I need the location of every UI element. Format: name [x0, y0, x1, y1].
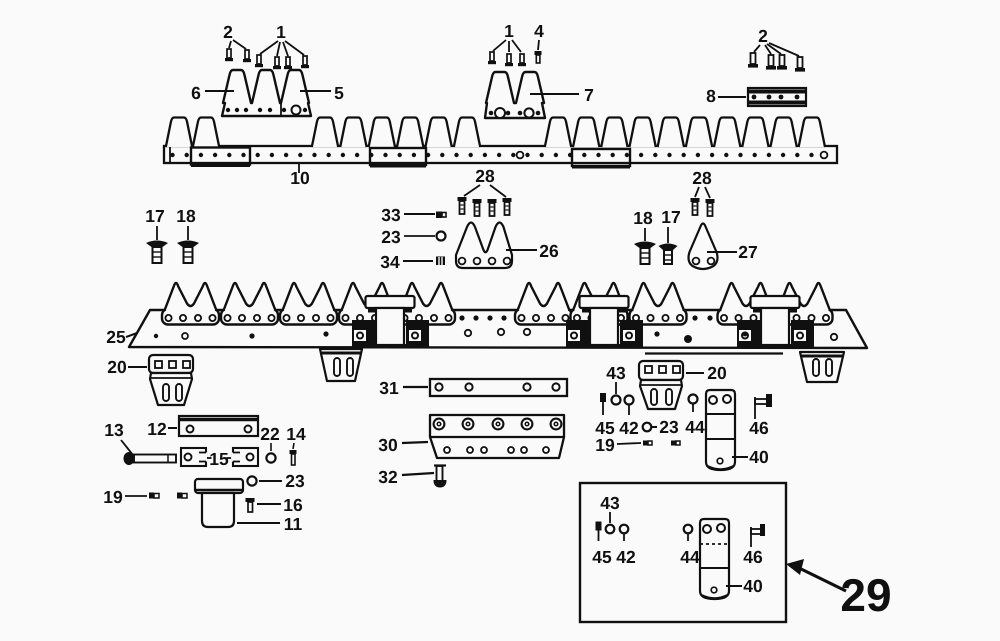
svg-text:42: 42: [619, 418, 639, 438]
rivet 1d: [301, 56, 309, 68]
nut 23b: [643, 423, 652, 432]
bar holes in guard gaps: [459, 315, 712, 320]
mounting bracket 20 left: [149, 355, 193, 405]
rivet 1e: [488, 52, 496, 64]
svg-text:2: 2: [758, 26, 768, 46]
knife section 7 (2-tooth): [485, 72, 545, 118]
rivet 2f: [795, 57, 805, 72]
rivet 2d: [766, 55, 776, 70]
guard unit 4: [339, 283, 396, 325]
wear plate 40 upper: [706, 390, 735, 470]
washer 42a: [625, 396, 634, 416]
label 40 box: [726, 576, 763, 596]
label 32: [378, 467, 434, 487]
rivet 2a: [225, 49, 233, 61]
label 27: [707, 242, 758, 262]
svg-text:19: 19: [103, 487, 123, 507]
svg-text:18: 18: [633, 208, 653, 228]
svg-text:44: 44: [685, 417, 705, 437]
label 14 with leader: [286, 424, 306, 449]
label 12: [147, 419, 177, 439]
svg-text:1: 1: [504, 21, 514, 41]
guard unit 5: [398, 283, 455, 325]
svg-text:30: 30: [378, 435, 398, 455]
svg-text:5: 5: [334, 83, 344, 103]
label 45 box: [592, 547, 612, 567]
svg-text:19: 19: [595, 435, 615, 455]
section outline a on bar: [191, 148, 250, 166]
knife head clamp assembly B: [566, 296, 643, 346]
pin 33: [436, 212, 446, 219]
svg-text:26: 26: [539, 241, 559, 261]
pin 45b: [596, 522, 602, 542]
label 46 box: [743, 547, 763, 567]
svg-text:4: 4: [534, 21, 544, 41]
svg-text:42: 42: [616, 547, 636, 567]
svg-text:20: 20: [107, 357, 127, 377]
svg-text:33: 33: [381, 205, 401, 225]
label 43 with leader: [606, 363, 626, 394]
clip plate 12: [179, 416, 258, 436]
label 19 right: [595, 435, 641, 455]
wear plate 30: [430, 415, 564, 458]
key 19a: [643, 441, 652, 446]
label 42: [619, 418, 639, 438]
svg-text:6: 6: [191, 83, 201, 103]
label 13 with leader: [104, 420, 133, 455]
guard unit 1: [162, 283, 219, 325]
label 26: [506, 241, 559, 261]
label 5: [300, 83, 344, 103]
svg-text:8: 8: [706, 86, 716, 106]
spacer 34: [436, 257, 445, 266]
label 34 with leader: [380, 252, 433, 272]
label 40 upper: [732, 447, 769, 467]
guard unit 2: [221, 283, 278, 325]
pin 28a: [458, 197, 467, 214]
guard unit 7: [571, 283, 628, 325]
label 28 with leader fan (4 pins): [464, 166, 506, 197]
guard bar 25 body: [129, 310, 867, 348]
rivet 18b: [634, 242, 656, 265]
lock washer 43b: [606, 525, 615, 534]
svg-text:46: 46: [749, 418, 769, 438]
rivet 17a: [146, 241, 168, 264]
svg-text:40: 40: [743, 576, 763, 596]
svg-text:18: 18: [176, 206, 196, 226]
rivet 4: [535, 51, 542, 63]
svg-text:43: 43: [600, 493, 620, 513]
washer 22: [266, 453, 275, 462]
key 19c: [149, 493, 159, 499]
guard unit 8: [630, 283, 687, 325]
bolt 16: [246, 498, 255, 512]
rivet 1c: [284, 57, 292, 69]
label 18 right with leader: [633, 208, 653, 241]
arrow to box 29: [786, 559, 846, 591]
knife head clamp assembly A: [352, 296, 429, 346]
lock washer 43a: [612, 396, 621, 405]
label 29: [840, 569, 891, 621]
nut 23c: [247, 476, 256, 485]
cutter bar 10 with serrated sections: [164, 118, 837, 164]
svg-text:25: 25: [106, 327, 126, 347]
label 20 right: [686, 363, 727, 383]
rivet 1g: [518, 54, 526, 66]
back plate 31: [430, 379, 567, 396]
key 19b: [671, 441, 680, 446]
knife head 11: [195, 479, 243, 527]
rivet 1a: [255, 55, 263, 67]
clevis 15 right: [232, 448, 258, 466]
bolt 46 lower: [751, 524, 765, 547]
guard unit 6: [515, 283, 572, 325]
svg-text:23: 23: [285, 471, 305, 491]
svg-text:40: 40: [749, 447, 769, 467]
svg-text:29: 29: [840, 569, 891, 621]
label 33 with leader: [381, 205, 435, 225]
knife section 5/6 (3-tooth): [222, 70, 311, 116]
svg-text:11: 11: [284, 514, 303, 534]
label 2 with leader fan (part 8 rivets): [754, 26, 799, 56]
rivet 2b: [243, 50, 251, 62]
rivet 2e: [777, 55, 787, 70]
label 6: [191, 83, 234, 103]
clevis 15 left: [181, 448, 207, 466]
svg-text:23: 23: [659, 417, 679, 437]
label 1 with leader fan (top-left rivets): [260, 22, 304, 56]
mounting bracket 20 right: [639, 361, 683, 409]
svg-text:15: 15: [209, 449, 229, 469]
rivet 18a: [177, 241, 199, 264]
wear strip line under bar: [645, 352, 783, 354]
label 43 box: [600, 493, 620, 523]
svg-text:17: 17: [145, 206, 164, 226]
svg-text:28: 28: [475, 166, 495, 186]
svg-text:2: 2: [223, 22, 233, 42]
svg-text:44: 44: [680, 547, 700, 567]
label 8: [706, 86, 746, 106]
label 46 upper: [749, 418, 769, 438]
label 2 with leader fan (top-left rivets): [223, 22, 246, 49]
svg-text:43: 43: [606, 363, 626, 383]
label 17 with leader: [145, 206, 164, 240]
pin 28e: [691, 198, 700, 215]
pin 28c: [488, 199, 497, 216]
knife head clamp assembly C: [737, 296, 814, 346]
label 4 with leader: [534, 21, 544, 50]
svg-text:31: 31: [379, 378, 399, 398]
label 7: [530, 85, 594, 105]
svg-text:14: 14: [286, 424, 306, 444]
pin 14: [290, 450, 297, 465]
label 23 bottom: [259, 471, 305, 491]
svg-text:27: 27: [738, 242, 757, 262]
svg-text:23: 23: [381, 227, 401, 247]
svg-text:46: 46: [743, 547, 763, 567]
svg-text:20: 20: [707, 363, 727, 383]
guard clip 27: [689, 224, 718, 270]
svg-text:17: 17: [661, 207, 680, 227]
pin 45a: [600, 393, 606, 415]
svg-text:10: 10: [290, 168, 310, 188]
label 45: [595, 418, 615, 438]
key 19d: [177, 493, 187, 499]
guard unit 3: [280, 283, 337, 325]
svg-text:13: 13: [104, 420, 124, 440]
svg-text:34: 34: [380, 252, 400, 272]
wear plate 40 lower: [700, 519, 729, 599]
label 20 left: [107, 357, 147, 377]
label 42 box: [616, 547, 636, 567]
label 44: [685, 417, 705, 437]
label 1 with leader fan (center rivets): [493, 21, 521, 52]
inset box 29 frame: [580, 483, 786, 622]
section outline c on bar: [572, 149, 630, 167]
bolt 46 upper: [755, 394, 772, 419]
guard unit 10: [776, 283, 833, 325]
label 19 left: [103, 487, 147, 507]
svg-text:22: 22: [260, 424, 280, 444]
pin 28b: [473, 199, 482, 216]
svg-text:7: 7: [584, 85, 594, 105]
rivet 1b: [273, 57, 281, 69]
svg-text:12: 12: [147, 419, 167, 439]
rivet 2c: [748, 53, 758, 68]
guard unit 9: [718, 283, 775, 325]
svg-text:45: 45: [592, 547, 612, 567]
plow bolt 32: [434, 466, 447, 488]
label 22 with leader: [260, 424, 280, 451]
label 15: [207, 449, 231, 469]
label 18 with leader: [176, 206, 196, 240]
svg-text:16: 16: [283, 495, 303, 515]
label 28 right with leader fan: [692, 168, 712, 198]
label 31: [379, 378, 428, 398]
bolt holes in guard bar: [154, 329, 837, 343]
svg-text:1: 1: [276, 22, 286, 42]
label 25: [106, 327, 137, 347]
washer 44b: [684, 525, 693, 541]
svg-text:28: 28: [692, 168, 712, 188]
section outline b on bar: [370, 148, 426, 166]
label 23 right: [652, 417, 679, 437]
washer 42b: [620, 525, 629, 541]
guard bracket below bar B: [800, 352, 844, 382]
nut 23a: [437, 232, 446, 241]
pin 28d: [503, 198, 512, 215]
label 23 with leader: [381, 227, 435, 247]
label 17 right with leader: [661, 207, 680, 243]
pin 28f: [706, 199, 715, 216]
label 10: [290, 164, 310, 188]
carriage bolt 13: [124, 452, 177, 465]
label 44 box: [680, 547, 700, 567]
rivet 1f: [505, 54, 513, 66]
ledger plate 8: [748, 88, 806, 106]
label 11: [237, 514, 303, 534]
svg-text:32: 32: [378, 467, 398, 487]
washer 44a: [689, 395, 698, 413]
label 16: [257, 495, 303, 515]
guard bracket below bar A: [320, 349, 362, 381]
knife section 26 (pointed 2-tooth): [456, 223, 512, 269]
rivet 17b: [659, 244, 678, 265]
label 30: [378, 435, 428, 455]
